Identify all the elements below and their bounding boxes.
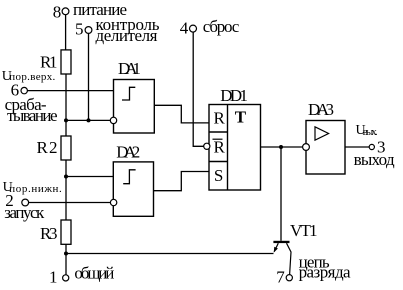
terminal pin 6: [21, 87, 27, 93]
wire pin2 to DA2 inverting input: [29, 202, 111, 204]
node ground join: [64, 252, 68, 256]
svg-text:запуск: запуск: [4, 203, 45, 222]
svg-text:делителя: делителя: [96, 26, 158, 45]
wire divider node to DA1 inverting input: [66, 119, 110, 121]
flip-flop DD1: [209, 105, 261, 191]
svg-text:DA2: DA2: [116, 142, 140, 161]
svg-text:DA3: DA3: [308, 100, 334, 119]
svg-text:S: S: [214, 166, 223, 185]
wire pin8 to R1: [65, 15, 67, 50]
resistor R3: [61, 220, 71, 244]
svg-text:DA1: DA1: [118, 59, 141, 78]
buffer DA3: [306, 121, 345, 175]
svg-text:R2: R2: [37, 138, 58, 157]
terminal pin 4: [190, 25, 197, 32]
svg-text:DD1: DD1: [220, 86, 248, 105]
wire R1 to R2: [65, 74, 67, 136]
terminal pin 1: [63, 275, 69, 281]
wire R3 to pin1: [65, 244, 67, 274]
resistor R2: [61, 136, 71, 160]
wire pin6 to DA1 input: [27, 90, 113, 92]
wire pin5 down: [88, 33, 90, 120]
wire pin4 down: [193, 32, 204, 146]
wire DD1 output to DA3: [261, 146, 303, 148]
wire ground bus: [66, 253, 274, 255]
svg-text:сброс: сброс: [203, 17, 240, 36]
terminal pin 2: [22, 199, 29, 206]
node R2R3: [64, 175, 68, 179]
wire to VT1 base: [280, 147, 282, 241]
svg-text:R1: R1: [40, 53, 58, 72]
svg-text:T: T: [235, 107, 247, 126]
svg-text:7: 7: [276, 268, 285, 287]
transistor VT1 base bar: [273, 241, 289, 243]
svg-text:общий: общий: [74, 264, 114, 283]
wire DA2 output to DD1 S: [154, 172, 210, 191]
svg-text:VT1: VT1: [290, 221, 318, 240]
svg-text:тывание: тывание: [7, 106, 58, 125]
svg-text:R: R: [214, 109, 226, 128]
svg-text:1: 1: [49, 267, 58, 286]
svg-text:R3: R3: [40, 224, 58, 243]
svg-text:выход: выход: [354, 150, 395, 169]
wire DA3 output to pin3: [345, 146, 369, 148]
wire R2R3 node to DA2 input: [66, 176, 113, 178]
svg-text:8: 8: [53, 3, 62, 22]
node divider R1R2: [64, 118, 68, 122]
resistor R1: [61, 50, 71, 74]
svg-text:разряда: разряда: [299, 263, 351, 282]
wire R2 to R3: [65, 160, 67, 220]
svg-text:вых.: вых.: [363, 126, 378, 138]
terminal pin 8: [62, 8, 69, 15]
transistor VT1 collector: [287, 243, 292, 274]
op-amp comparator DA1: [114, 80, 155, 134]
svg-text:5: 5: [75, 20, 84, 39]
node output to VT1: [279, 145, 283, 149]
terminal pin 7: [286, 275, 292, 281]
wire DA1 output to DD1 R: [154, 105, 209, 123]
svg-text:пор.нижн.: пор.нижн.: [9, 183, 62, 195]
transistor VT1 emitter: [274, 243, 278, 251]
op-amp comparator DA2: [113, 162, 153, 216]
terminal pin 5: [85, 27, 92, 34]
node pin5 join: [87, 118, 91, 122]
svg-text:R: R: [214, 138, 226, 157]
terminal pin 3: [369, 144, 374, 149]
svg-text:4: 4: [180, 19, 189, 38]
